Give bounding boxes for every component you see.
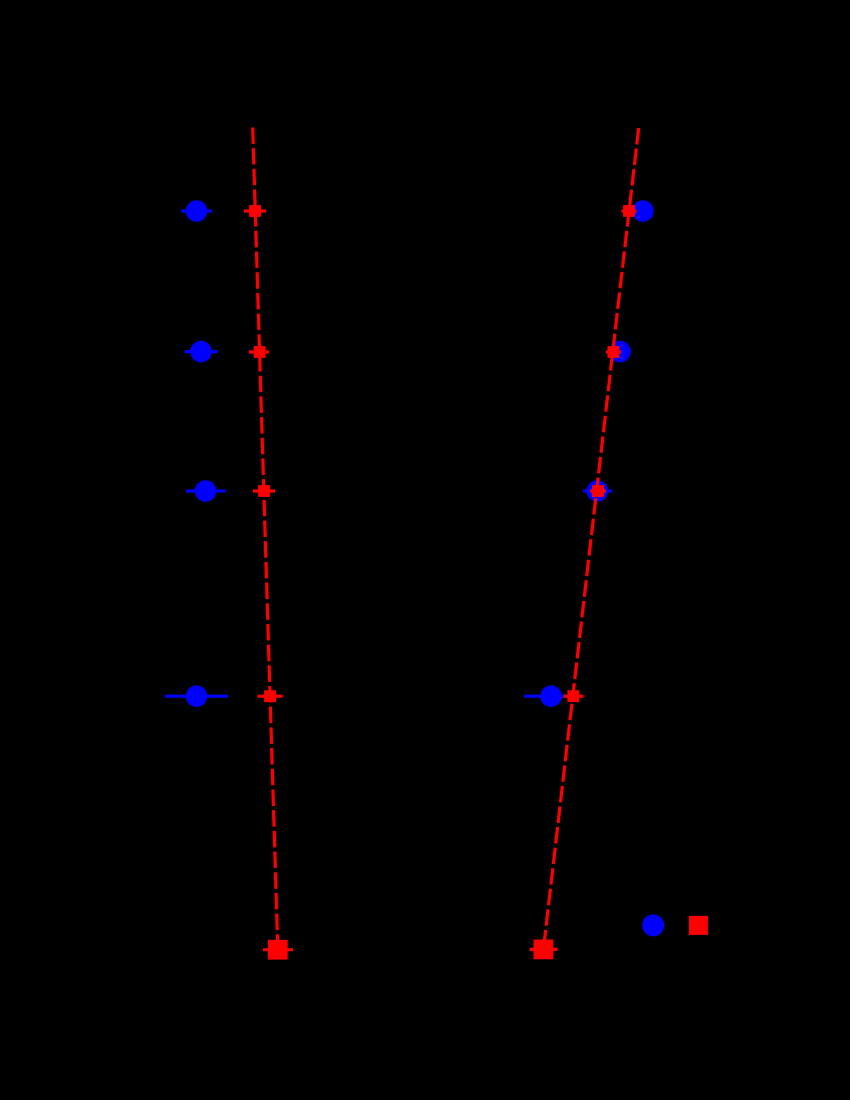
red errorbar row2 left (249, 350, 269, 353)
blue errorbar row3 left (186, 489, 226, 492)
blue circle row1 left (186, 200, 208, 222)
blue circle row2 right (609, 341, 631, 363)
left panel: blue data points with x error bars (165, 200, 228, 707)
right fit: red dashed line (543, 128, 638, 950)
blue circle row3 right (587, 480, 609, 502)
red square row2 right (608, 346, 620, 358)
red square row4 right (567, 690, 579, 702)
red square row1 left (249, 205, 261, 217)
blue circle row1 right (632, 200, 654, 222)
left fit: red dashed line (253, 127, 278, 949)
red square bottom right (large) (534, 940, 554, 960)
blue circle row4 left (186, 685, 208, 707)
red errorbar row2 right (606, 350, 621, 353)
red errorbar row3 left (253, 489, 275, 492)
blue errorbar row2 right (610, 350, 631, 353)
red square row4 left (264, 690, 276, 702)
blue errorbar row4 right (524, 695, 578, 698)
red errorbar bottom left (263, 948, 293, 951)
red errorbar row1 right (622, 209, 637, 212)
red errorbar bottom right (530, 948, 558, 951)
red square row3 left (258, 485, 270, 497)
legend marker: red square (689, 916, 708, 935)
blue errorbar row4 left (165, 695, 228, 698)
red square bottom left (large) (268, 940, 288, 960)
red errorbar row4 right (564, 695, 584, 698)
blue errorbar row1 right (633, 209, 654, 212)
legend marker: blue circle (642, 914, 664, 936)
red errorbar row4 left (258, 695, 283, 698)
blue errorbar row2 left (185, 350, 218, 353)
blue errorbar row3 right (583, 489, 612, 492)
red errorbar row1 left (244, 209, 266, 212)
red square row2 left (254, 346, 266, 358)
right panel: blue data points with x error bars (524, 200, 654, 707)
red errorbar row3 right (590, 489, 606, 492)
blue errorbar row1 left (181, 209, 212, 212)
red square row1 right (623, 205, 635, 217)
blue circle row3 left (195, 480, 217, 502)
blue circle row2 left (190, 341, 212, 363)
blue circle row4 right (540, 685, 562, 707)
red square row3 right (592, 485, 604, 497)
right panel: red model points with x error bars (530, 205, 637, 959)
left panel: red model points with x error bars (244, 205, 293, 960)
